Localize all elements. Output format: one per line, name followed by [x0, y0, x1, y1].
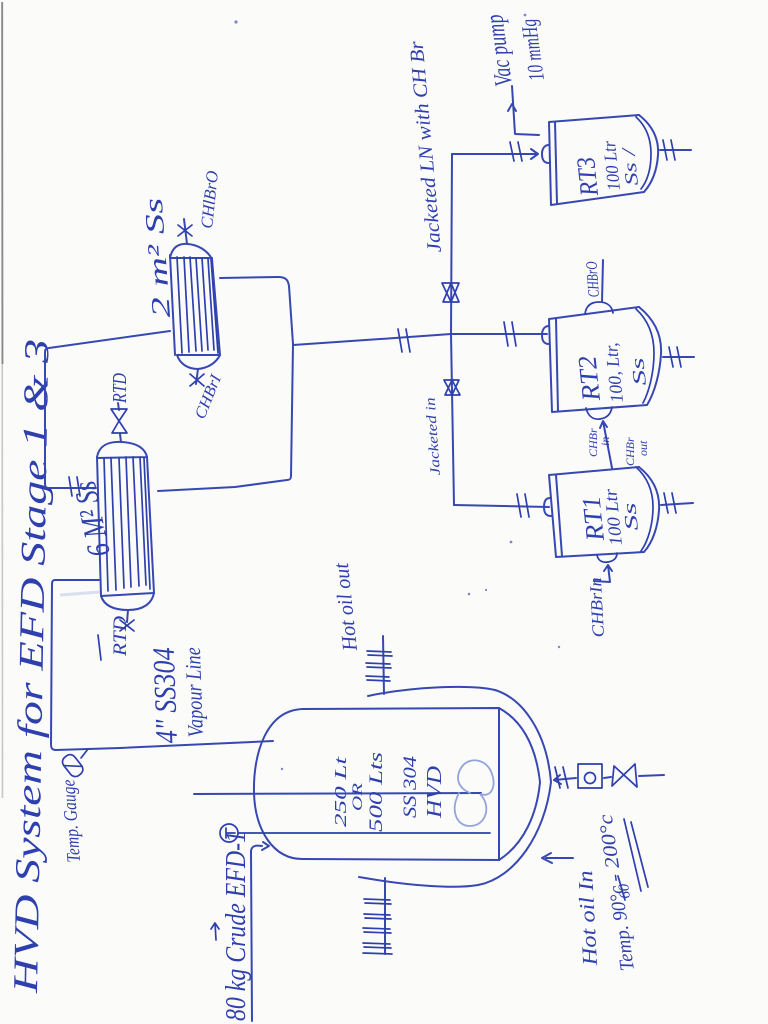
svg-text:Vapour Line: Vapour Line [180, 647, 208, 738]
svg-text:CHBr: CHBr [623, 437, 637, 466]
svg-text:RT3: RT3 [571, 156, 604, 199]
svg-text:CHBrIn: CHBrIn [586, 577, 608, 638]
svg-text:4" SS304: 4" SS304 [146, 647, 184, 744]
svg-text:RTD: RTD [110, 616, 131, 657]
svg-text:in: in [598, 437, 612, 446]
svg-text:OR: OR [350, 783, 366, 811]
svg-text:250 Lt: 250 Lt [331, 755, 350, 827]
svg-text:80 kg Crude EFD-1: 80 kg Crude EFD-1 [221, 831, 252, 1021]
svg-text:RTD: RTD [109, 373, 131, 404]
svg-text:SS 304: SS 304 [400, 755, 421, 818]
svg-text:HVD: HVD [422, 766, 446, 819]
svg-text:RT2: RT2 [572, 355, 606, 404]
svg-text:Ss: Ss [627, 357, 650, 387]
svg-text:Hot oil In: Hot oil In [573, 870, 602, 967]
svg-text:Ss /: Ss / [618, 145, 642, 187]
svg-text:Ss: Ss [619, 502, 642, 532]
svg-text:500 Lts: 500 Lts [366, 752, 387, 832]
svg-text:CHBrO: CHBrO [583, 260, 602, 297]
svg-text:out: out [636, 440, 650, 456]
